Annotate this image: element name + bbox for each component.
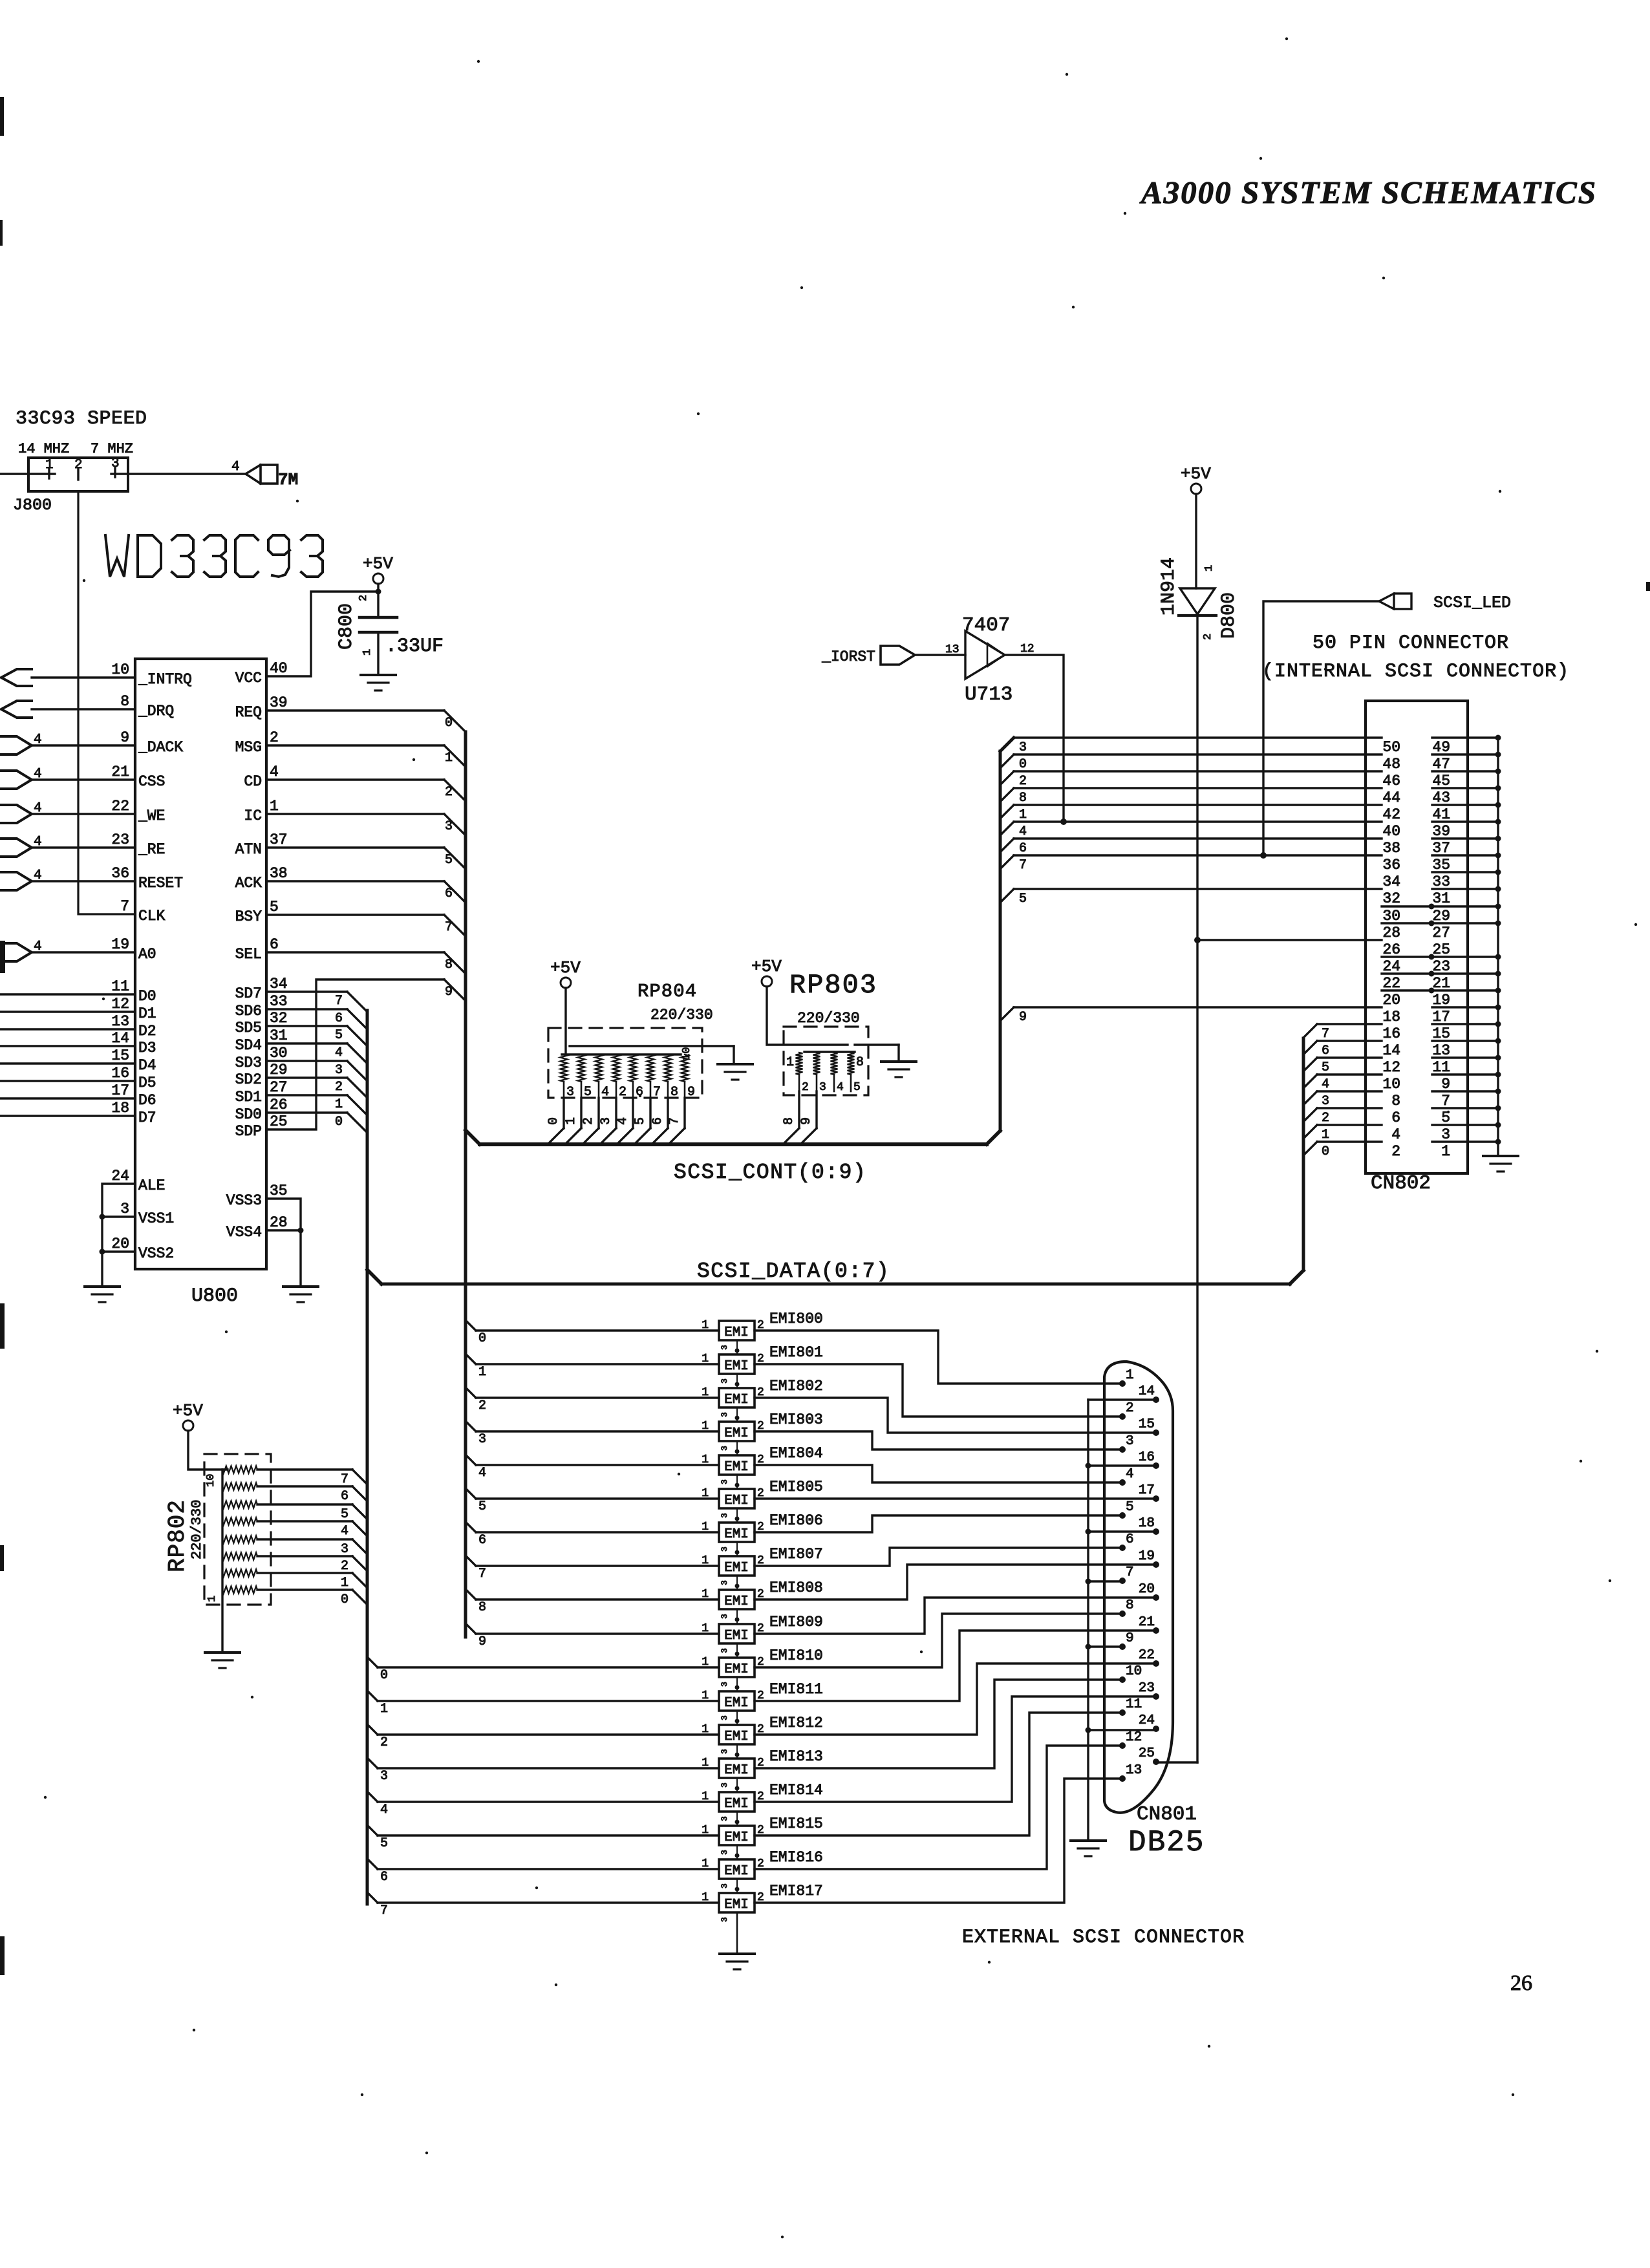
svg-text:21: 21 [111, 764, 129, 780]
svg-text:1: 1 [702, 1420, 709, 1433]
wire D2 from page edge [0, 1028, 135, 1030]
svg-text:17: 17 [1432, 1009, 1450, 1025]
node label 4 (cn802) [1019, 824, 1027, 839]
D800 pin 2 label [1202, 634, 1214, 640]
svg-text:EMI: EMI [724, 1830, 749, 1845]
wire EMI802 to CN801 pin 15 [755, 1398, 1156, 1433]
ground (U800 left) [85, 1287, 120, 1302]
svg-text:18: 18 [1139, 1516, 1155, 1531]
node label 7 [445, 920, 453, 935]
svg-text:8: 8 [1126, 1598, 1134, 1613]
svg-text:0: 0 [1019, 757, 1027, 772]
wire RP802 R5 to bus bit 3 [257, 1539, 367, 1554]
svg-text:8: 8 [1019, 791, 1027, 806]
svg-text:EMI814: EMI814 [769, 1782, 823, 1799]
svg-text:1: 1 [702, 1453, 709, 1466]
svg-text:J800: J800 [13, 496, 52, 515]
svg-text:4: 4 [601, 1085, 609, 1100]
port _DRQ [1, 701, 32, 718]
node label 7 (cn802) [1019, 858, 1027, 873]
svg-text:22: 22 [111, 798, 129, 815]
svg-text:EMI: EMI [724, 1662, 749, 1677]
U800 pin 39 REQ [235, 694, 288, 721]
U800 pin 11 D0 [111, 978, 156, 1005]
label CN801 [1137, 1803, 1197, 1826]
svg-text:3: 3 [720, 1648, 729, 1653]
CN802 pins 4/3 [1391, 1122, 1501, 1144]
svg-text:1: 1 [702, 1319, 709, 1332]
node label 0 (cn802) [1019, 757, 1027, 772]
svg-text:EMI809: EMI809 [769, 1614, 823, 1631]
svg-text:D2: D2 [138, 1023, 156, 1040]
svg-text:19: 19 [111, 936, 129, 953]
wire RP804 R3 to bus bit 3 [600, 1098, 616, 1144]
label RP804 [637, 981, 697, 1002]
wire cont bit 3 to CN802 [1014, 736, 1382, 738]
page number 26 [1510, 1971, 1532, 1995]
port CSS [0, 767, 42, 789]
svg-text:4: 4 [837, 1081, 844, 1094]
wire SCSI_DATA bit 0 to EMI810 [367, 1657, 719, 1667]
svg-text:37: 37 [270, 831, 288, 848]
svg-text:7: 7 [1019, 858, 1027, 873]
wire _DRQ [32, 708, 135, 710]
U800 pin 27 SD1 [235, 1079, 288, 1106]
RP803 pin 2 [799, 1075, 809, 1094]
svg-text:8: 8 [670, 1085, 678, 1100]
U800 pin 16 D5 [111, 1065, 156, 1091]
svg-text:1: 1 [702, 1353, 709, 1365]
label RP802 [164, 1499, 191, 1572]
wire SCSI_CONT bit 5 to EMI805 [466, 1488, 719, 1499]
svg-text:9: 9 [445, 985, 453, 1000]
wire EMI815 to CN801 pin 11 [755, 1713, 1122, 1835]
wire RP802 R1 to bus bit 7 [257, 1470, 367, 1484]
svg-text:7: 7 [478, 1567, 486, 1581]
svg-text:EMI803: EMI803 [769, 1411, 823, 1428]
CN801 pin 15 [1139, 1417, 1159, 1436]
wire SD3 to SCSI_DATA bit 3 [266, 1061, 367, 1081]
svg-text:9: 9 [478, 1634, 486, 1649]
svg-text:REQ: REQ [235, 704, 262, 721]
J800 pin 2 [74, 458, 83, 480]
svg-text:27: 27 [1432, 925, 1450, 941]
wire SCSI_DATA bit 5 to EMI815 [367, 1825, 719, 1835]
svg-text:14 MHZ: 14 MHZ [18, 441, 69, 457]
svg-text:3: 3 [720, 1883, 729, 1888]
svg-text:6: 6 [636, 1085, 643, 1100]
svg-text:2: 2 [1322, 1111, 1329, 1126]
svg-text:27: 27 [270, 1079, 288, 1096]
svg-text:EMI811: EMI811 [769, 1681, 823, 1698]
svg-text:CLK: CLK [138, 908, 166, 925]
CN801 pin 23 [1139, 1681, 1159, 1700]
node label 0 [445, 716, 453, 731]
node label 5 (emi) [478, 1499, 486, 1514]
svg-text:25: 25 [1139, 1746, 1155, 1761]
CN802 pins 34/33 [1382, 870, 1501, 891]
svg-text:1: 1 [564, 1117, 579, 1125]
svg-text:6: 6 [478, 1533, 486, 1548]
wire EMI810 to CN801 pin 8 [755, 1614, 1122, 1667]
U800 pin 22 _WE [111, 798, 165, 824]
wire D5 from page edge [0, 1080, 135, 1082]
svg-text:31: 31 [270, 1027, 288, 1044]
svg-text:33: 33 [270, 993, 288, 1010]
U800 pin 19 A0 [111, 936, 156, 963]
wire EMI807 to CN801 pin 6 [755, 1548, 1122, 1566]
node VCC junction [376, 589, 381, 595]
svg-text:33C93 SPEED: 33C93 SPEED [16, 408, 147, 430]
wire RP804 R5 to bus bit 5 [634, 1098, 650, 1144]
svg-text:EMI: EMI [724, 1426, 749, 1441]
U800 pin 31 SD4 [235, 1027, 288, 1054]
wire J800 pin2 to CLK [78, 491, 135, 914]
wire RP803 R1 to bus bit 8 [783, 1091, 799, 1144]
node label 3 (data) [335, 1063, 343, 1078]
wire U800 to SCSI_CONT bit 7 [266, 915, 466, 936]
svg-text:3: 3 [720, 1614, 729, 1619]
wire EMI811 pin3 chain [720, 1711, 740, 1725]
svg-text:220/330: 220/330 [797, 1010, 860, 1027]
wire RP804 R6 to bus bit 6 [652, 1098, 668, 1144]
node CN801 gnd junction 2676 [1086, 1728, 1091, 1733]
svg-text:EMI805: EMI805 [769, 1479, 823, 1495]
svg-text:1: 1 [206, 1596, 219, 1602]
EMI filter EMI809 [702, 1614, 823, 1643]
node label 5 (rp804) [633, 1117, 648, 1125]
svg-text:14: 14 [111, 1030, 129, 1047]
svg-text:1: 1 [445, 751, 453, 765]
svg-text:26: 26 [1382, 941, 1400, 958]
svg-text:SD7: SD7 [235, 985, 262, 1002]
svg-text:38: 38 [1382, 840, 1400, 857]
jumper J800 box [28, 458, 128, 491]
wire EMI800 pin3 chain [720, 1340, 740, 1354]
wire SCSI_DATA bit 6 to EMI816 [367, 1859, 719, 1869]
node label 2 (rp802) [341, 1559, 348, 1574]
RP804 pin 8 [668, 1082, 678, 1100]
CN802 pins 32/31 [1382, 886, 1501, 908]
label RP802 value [189, 1500, 205, 1559]
CN801 pin 21 [1139, 1615, 1159, 1634]
svg-text:SDP: SDP [235, 1123, 262, 1140]
wire EMI809 pin3 chain [720, 1643, 740, 1658]
EMI filter EMI801 [702, 1344, 823, 1374]
CN801 pin 11 [1119, 1697, 1142, 1716]
resistor RP803.4 [848, 1053, 855, 1075]
wire into J800 pin1 [0, 473, 55, 475]
label RP804 value [650, 1007, 713, 1023]
svg-text:EMI: EMI [724, 1629, 749, 1643]
CN802 pins 12/11 [1382, 1055, 1501, 1076]
C800 pin 2 label [358, 595, 370, 601]
J800 pin 1 [45, 458, 54, 478]
node U713 out junction [1060, 818, 1067, 825]
svg-text:1: 1 [702, 1588, 709, 1601]
svg-text:36: 36 [1382, 857, 1400, 873]
svg-text:2: 2 [270, 729, 279, 746]
svg-text:3: 3 [720, 1513, 729, 1518]
U800 pin 15 D4 [111, 1047, 156, 1074]
svg-text:7: 7 [120, 898, 129, 915]
svg-text:13: 13 [1432, 1042, 1450, 1059]
wire cont bit 5 to CN802 [1000, 889, 1382, 903]
svg-text:7407: 7407 [962, 614, 1010, 637]
svg-text:3: 3 [1322, 1094, 1329, 1109]
svg-text:_RE: _RE [138, 841, 165, 858]
wire EMI809 to CN801 pin 20 [755, 1598, 1156, 1634]
resistor RP802.3 [222, 1501, 257, 1508]
svg-text:1: 1 [702, 1487, 709, 1500]
CN801 pin 25 [1139, 1746, 1159, 1765]
node label 0 (cn802 data) [1322, 1144, 1329, 1159]
U800 pin 24 ALE [111, 1168, 165, 1194]
wire data bit 1 to CN802 [1303, 1125, 1382, 1139]
svg-text:30: 30 [270, 1045, 288, 1062]
node label 4 (data) [335, 1045, 343, 1060]
svg-text:EMI: EMI [724, 1864, 749, 1879]
svg-text:D0: D0 [138, 988, 156, 1005]
svg-text:3: 3 [120, 1201, 129, 1217]
bus SCSI_CONT horizontal [480, 1142, 987, 1146]
node label 2 (data) [335, 1080, 343, 1095]
svg-text:(INTERNAL SCSI CONNECTOR): (INTERNAL SCSI CONNECTOR) [1262, 661, 1569, 683]
svg-text:35: 35 [270, 1182, 288, 1199]
capacitor C800 [336, 603, 444, 658]
svg-text:8: 8 [120, 693, 129, 710]
svg-text:32: 32 [270, 1010, 288, 1027]
wire EMI803 to CN801 pin 3 [755, 1431, 1122, 1450]
U800 pin 29 SD2 [235, 1062, 288, 1088]
node CN801 gnd junction 2547 [1086, 1644, 1091, 1650]
svg-text:EMI: EMI [724, 1797, 749, 1812]
svg-text:D7: D7 [138, 1109, 156, 1126]
wire RP804 R4 to bus bit 4 [617, 1098, 633, 1144]
svg-text:0: 0 [478, 1331, 486, 1346]
U800 pin 8 _DRQ [120, 693, 174, 720]
label J800 [13, 496, 52, 515]
svg-text:D4: D4 [138, 1057, 156, 1074]
svg-text:1: 1 [702, 1790, 709, 1803]
CN802 pins 50/49 [1382, 735, 1501, 756]
node label 3 (cn802) [1019, 740, 1027, 755]
power +5V (RP802) [173, 1401, 203, 1431]
svg-text:_DACK: _DACK [138, 739, 183, 756]
svg-text:EMI: EMI [724, 1729, 749, 1744]
RP803 common rail [804, 1051, 855, 1053]
svg-text:SCSI_LED: SCSI_LED [1433, 594, 1511, 612]
svg-text:13: 13 [945, 643, 959, 656]
svg-text:6: 6 [650, 1117, 665, 1125]
CN802 pins 6/5 [1391, 1106, 1501, 1127]
svg-text:EMI816: EMI816 [769, 1849, 823, 1866]
svg-text:12: 12 [1382, 1059, 1400, 1076]
wire EMI816 pin3 chain [720, 1879, 740, 1893]
node label 1 (emi) [478, 1365, 486, 1380]
resistor RP802.2 [222, 1483, 257, 1490]
wire EMI813 to CN801 pin 10 [755, 1680, 1122, 1768]
node label 7 (data) [335, 994, 343, 1009]
resistor RP803.3 [831, 1053, 838, 1075]
svg-text:SD2: SD2 [235, 1071, 262, 1088]
svg-text:EMI: EMI [724, 1696, 749, 1711]
svg-text:14: 14 [1382, 1042, 1400, 1059]
node label 3 (rp804) [599, 1117, 614, 1125]
svg-text:SD0: SD0 [235, 1106, 262, 1123]
wire SD1 to SCSI_DATA bit 1 [266, 1095, 367, 1115]
wire SCSI_DATA bit 1 to EMI811 [367, 1691, 719, 1701]
wire EMI805 pin3 chain [720, 1508, 740, 1523]
svg-text:3: 3 [1126, 1434, 1134, 1449]
svg-text:EMI: EMI [724, 1763, 749, 1778]
label 1N914 [1158, 557, 1180, 615]
svg-text:47: 47 [1432, 756, 1450, 773]
svg-text:2: 2 [358, 595, 370, 601]
svg-text:2: 2 [380, 1735, 388, 1750]
RP804 pin 10 label [681, 1047, 693, 1060]
svg-text:3: 3 [720, 1917, 729, 1922]
U800 pin 12 D1 [111, 996, 156, 1022]
svg-text:15: 15 [111, 1047, 129, 1064]
svg-text:IC: IC [244, 808, 262, 824]
RP803 dashed box [784, 1027, 868, 1095]
svg-text:33: 33 [1432, 873, 1450, 890]
port _IORST [821, 646, 915, 665]
svg-text:3: 3 [720, 1446, 729, 1451]
svg-text:VSS2: VSS2 [138, 1245, 174, 1262]
svg-text:2: 2 [478, 1398, 486, 1413]
node label 5 [445, 853, 453, 868]
svg-text:3: 3 [566, 1085, 574, 1100]
RP802 common rail [221, 1470, 223, 1651]
svg-text:29: 29 [1432, 908, 1450, 925]
svg-text:4: 4 [1391, 1126, 1400, 1143]
svg-text:SCSI_CONT(0:9): SCSI_CONT(0:9) [674, 1161, 866, 1184]
wire cont bit 1 to CN802 [1000, 805, 1382, 818]
wire EMI811 to CN801 pin 21 [755, 1631, 1156, 1701]
svg-text:1: 1 [702, 1723, 709, 1736]
ground (RP804) [718, 1064, 753, 1080]
node label 3 (emi) [478, 1432, 486, 1447]
resistor RP803.1 [796, 1053, 803, 1075]
svg-text:3: 3 [720, 1749, 729, 1754]
resistor RP802.4 [222, 1518, 257, 1525]
svg-text:VSS1: VSS1 [138, 1210, 174, 1227]
wire U800 to SCSI_CONT bit 2 [266, 780, 466, 801]
svg-text:10: 10 [205, 1474, 217, 1487]
wire SDP to SCSI_CONT bit 9 [266, 979, 466, 1129]
CN801 pin 4 [1119, 1467, 1134, 1486]
RP804 pin 3 [564, 1082, 574, 1100]
svg-text:44: 44 [1382, 789, 1400, 806]
node label 8 (emi) [478, 1600, 486, 1615]
node CN801 gnd junction 2369 [1086, 1529, 1091, 1535]
svg-text:26: 26 [270, 1097, 288, 1113]
wire EMI805 to CN801 pin 17 [755, 1497, 1156, 1499]
U800 pin 17 D6 [111, 1082, 156, 1109]
RP803 pin 8 label [856, 1055, 864, 1070]
svg-text:+5V: +5V [550, 958, 581, 978]
svg-text:1: 1 [702, 1554, 709, 1567]
CN801 pin 9 [1119, 1631, 1134, 1650]
wire RP804 R2 to bus bit 2 [583, 1098, 599, 1144]
svg-text:35: 35 [1432, 857, 1450, 873]
svg-text:+5V: +5V [751, 957, 782, 976]
svg-text:VSS4: VSS4 [226, 1224, 262, 1241]
ground (EMI chain) [720, 1954, 755, 1969]
svg-text:EMI812: EMI812 [769, 1715, 823, 1731]
port _INTRQ [1, 669, 32, 686]
svg-text:8: 8 [856, 1055, 864, 1070]
wire EMI808 to CN801 pin 19 [755, 1565, 1156, 1599]
svg-text:6: 6 [341, 1489, 348, 1504]
wire EMI808 pin3 chain [720, 1609, 740, 1623]
wire cont bit 2 to CN802 [1000, 771, 1382, 785]
wire data bit 3 to CN802 [1303, 1091, 1382, 1105]
svg-text:ATN: ATN [235, 841, 262, 858]
CN801 pin 8 [1119, 1598, 1134, 1617]
svg-text:7: 7 [445, 920, 453, 935]
connector CN801 shell [1104, 1362, 1173, 1813]
svg-text:U713: U713 [965, 683, 1012, 706]
svg-text:2: 2 [1202, 634, 1214, 640]
wire D3 from page edge [0, 1045, 135, 1047]
port SCSI_LED [1379, 594, 1511, 612]
svg-text:1: 1 [702, 1689, 709, 1702]
svg-text:3: 3 [720, 1479, 729, 1484]
svg-text:EMI807: EMI807 [769, 1546, 823, 1563]
svg-text:5: 5 [584, 1085, 592, 1100]
svg-text:38: 38 [270, 865, 288, 882]
U800 pin 25 SDP [235, 1113, 288, 1140]
svg-text:3: 3 [445, 819, 453, 834]
svg-text:CD: CD [244, 773, 262, 790]
svg-text:+5V: +5V [1181, 464, 1211, 484]
resistor RP804.5 [630, 1054, 637, 1082]
svg-text:D800: D800 [1218, 592, 1240, 639]
RP804 ground rail [570, 1046, 734, 1063]
CN802 pins 14/13 [1382, 1038, 1501, 1060]
svg-text:4: 4 [335, 1045, 343, 1060]
bus SCSI_CONT corner [466, 1130, 480, 1144]
svg-text:20: 20 [1382, 992, 1400, 1009]
RP804 pin 5 [581, 1082, 592, 1100]
wire RP804 R1 to bus bit 1 [565, 1098, 581, 1144]
svg-text:2: 2 [341, 1559, 348, 1574]
U800 pin 21 CSS [111, 764, 165, 790]
node label 3 (rp802) [341, 1542, 348, 1557]
resistor RP802.7 [222, 1570, 257, 1577]
node label 5 (cn802) [1019, 892, 1027, 906]
wire RP803 R2 to bus bit 9 [800, 1091, 817, 1144]
svg-text:30: 30 [1382, 908, 1400, 925]
CN801 pin 10 [1119, 1664, 1142, 1683]
svg-text:39: 39 [270, 694, 288, 711]
wire VSS3/VSS4 chain [266, 1199, 301, 1285]
svg-text:1: 1 [341, 1576, 348, 1590]
wire D1 from page edge [0, 1011, 135, 1012]
wire D6 from page edge [0, 1097, 135, 1099]
svg-text:SD4: SD4 [235, 1037, 262, 1054]
wire SCSI_CONT bit 3 to EMI803 [466, 1421, 719, 1431]
EMI filter EMI803 [702, 1411, 823, 1441]
RP804 pin 7 [650, 1082, 661, 1100]
wire SD4 to SCSI_DATA bit 4 [266, 1043, 367, 1064]
node label 0 (rp802) [341, 1592, 348, 1607]
U800 pin 38 ACK [235, 865, 288, 892]
EMI filter EMI812 [702, 1715, 823, 1744]
